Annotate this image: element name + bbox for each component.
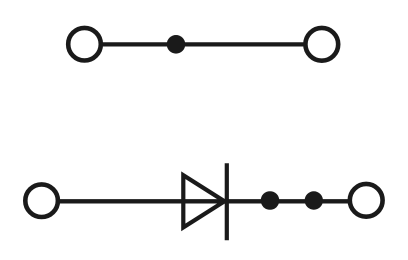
diode D1 cathode bar [225,163,229,240]
terminal circle (top left, pin 1) [68,28,101,61]
terminal circle (bottom left, pin 3) [25,184,58,217]
node dot 2 (bottom row) [305,191,323,209]
terminal circle (bottom right, pin 4) [350,184,383,217]
wire (top row, pin 1 to pin 2) [85,42,322,46]
terminal circle (top right, pin 2) [305,28,338,61]
wire (bottom row, pin 3 to pin 4) [42,199,367,203]
node dot 1 (bottom row) [261,191,280,210]
diode D1 anode triangle [183,175,224,227]
node dot (top row) [167,35,186,54]
